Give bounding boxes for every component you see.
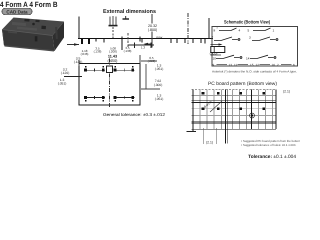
- dim texts under front view: [81, 45, 156, 62]
- svg-text:(.300): (.300): [154, 83, 163, 87]
- dark pattern lines: [192, 90, 277, 144]
- top row pads right: [114, 66, 135, 72]
- svg-text:(.138): (.138): [74, 60, 83, 64]
- dim line 20.32: [151, 14, 153, 48]
- svg-text:(2.1): (2.1): [206, 140, 213, 144]
- svg-text:CAD Data: CAD Data: [6, 9, 28, 14]
- svg-text:2: 2: [277, 63, 279, 67]
- circled pad: [250, 113, 255, 118]
- small label blob: [123, 16, 130, 19]
- svg-text:5: 5: [248, 29, 250, 33]
- grid: [192, 90, 277, 130]
- svg-text:(.051): (.051): [155, 67, 164, 71]
- svg-text:6: 6: [293, 63, 295, 67]
- relay photo: [2, 18, 64, 52]
- 11.43 dim text: [108, 55, 119, 63]
- svg-text:13: 13: [229, 63, 233, 67]
- svg-text:External dimensions: External dimensions: [103, 8, 156, 15]
- baseline: [78, 38, 213, 40]
- svg-text:(.138): (.138): [124, 49, 132, 53]
- svg-text:10: 10: [213, 56, 217, 60]
- svg-text:9: 9: [213, 63, 215, 67]
- svg-text:(2.1): (2.1): [283, 90, 290, 94]
- svg-text:Tolerance: ±0.1 ±.004: Tolerance: ±0.1 ±.004: [248, 154, 296, 160]
- side view center dash-dot: [187, 13, 189, 44]
- bottom row pads left: [84, 96, 105, 102]
- right end dim: [211, 39, 213, 47]
- svg-text:1: 1: [273, 29, 275, 33]
- dashed line: [127, 33, 129, 47]
- svg-text:12: 12: [256, 63, 260, 67]
- svg-text:(.138): (.138): [94, 49, 102, 53]
- schematic row 4 pin numbers: [217, 63, 292, 65]
- schematic row 1: [219, 28, 271, 31]
- schematic row 3: [213, 55, 276, 60]
- bottom view: [79, 64, 140, 106]
- svg-text:(.126): (.126): [61, 71, 70, 75]
- svg-text:max: max: [156, 36, 163, 40]
- schematic box: [212, 27, 298, 67]
- svg-text:8: 8: [214, 29, 216, 33]
- svg-text:(.450): (.450): [108, 59, 119, 63]
- schematic row 2: [212, 35, 278, 40]
- CAD Data button: [2, 8, 32, 15]
- crown vent symbol: [109, 16, 118, 26]
- svg-text:14: 14: [246, 56, 250, 60]
- bottom left grid dim: [204, 128, 217, 144]
- front view pins: [82, 37, 142, 51]
- right dims of bottom view: [139, 55, 141, 64]
- svg-text:(.051): (.051): [58, 81, 67, 85]
- svg-text:(.200): (.200): [109, 49, 117, 53]
- side view: [208, 18, 210, 39]
- top row pads left: [84, 66, 105, 72]
- dim arrows under baseline: [67, 44, 79, 46]
- svg-text:General tolerance: ±0.3 ±.012: General tolerance: ±0.3 ±.012: [103, 112, 166, 117]
- svg-text:7: 7: [212, 35, 214, 39]
- svg-text:• Suggested tolerance of holes: • Suggested tolerance of holes: ±0.1 ±.0…: [241, 143, 296, 147]
- side view pins: [171, 39, 205, 44]
- coil: [211, 43, 225, 55]
- front view: [78, 16, 80, 38]
- svg-text:(.800): (.800): [148, 28, 157, 32]
- svg-text:15: 15: [250, 63, 254, 67]
- svg-text:16: 16: [272, 63, 276, 67]
- bottom row pads right: [114, 96, 135, 102]
- svg-text:4: 4: [239, 29, 241, 33]
- svg-text:4 Form A 4 Form B: 4 Form A 4 Form B: [0, 0, 58, 9]
- svg-text:1.3: 1.3: [141, 45, 146, 49]
- svg-text:Asterisk (*) denotes the N.O.: Asterisk (*) denotes the N.O. side conta…: [212, 69, 297, 73]
- left dims of bottom view: [64, 76, 82, 78]
- svg-text:(.046): (.046): [81, 52, 89, 56]
- svg-text:3: 3: [249, 35, 251, 39]
- svg-text:11: 11: [234, 63, 237, 67]
- pads: [202, 92, 265, 110]
- svg-text:(.051): (.051): [155, 97, 164, 101]
- bullet notes: [241, 139, 308, 147]
- svg-text:PC board pattern (Bottom view): PC board pattern (Bottom view): [208, 81, 277, 87]
- vent square: [107, 66, 113, 73]
- bottom view center dashdot: [109, 59, 111, 109]
- svg-text:Schematic (Bottom View): Schematic (Bottom View): [224, 20, 270, 26]
- diagonal annotation: [203, 100, 222, 112]
